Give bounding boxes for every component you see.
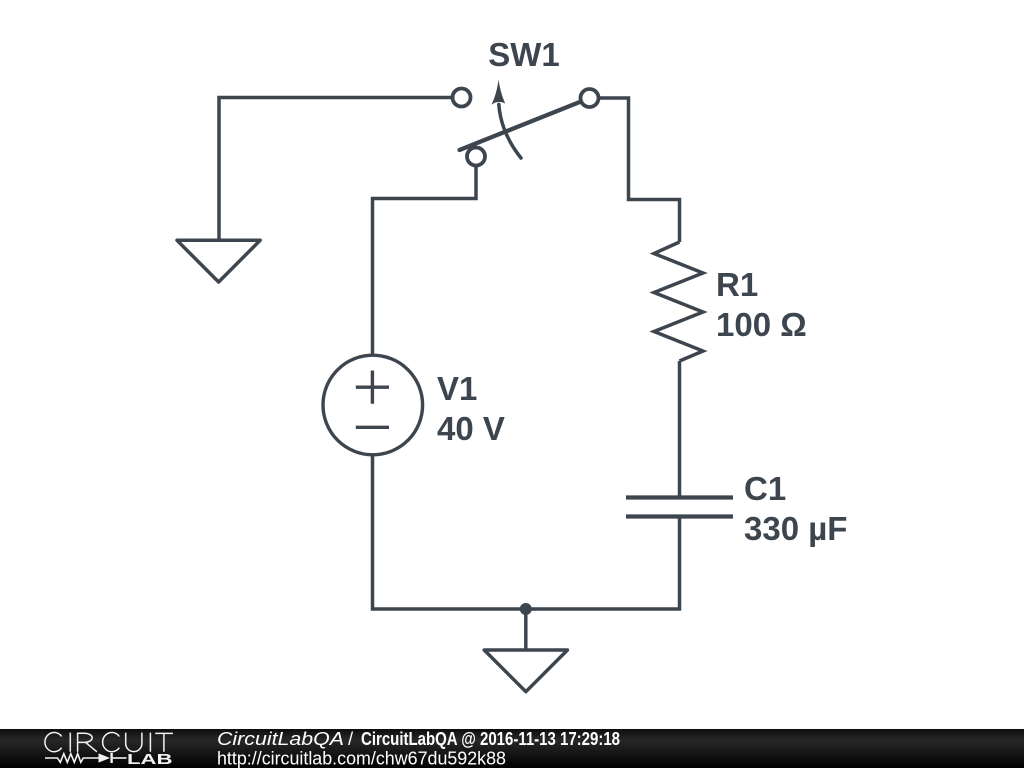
svg-text:C1: C1 xyxy=(744,470,786,507)
capacitor C1 bottom plate xyxy=(626,514,733,518)
logo letter T xyxy=(155,733,173,751)
svg-text:V1: V1 xyxy=(437,370,477,407)
node junction dot xyxy=(520,603,532,615)
wire C1 bottom to bottom rail xyxy=(526,518,680,609)
wire R1 to C1 xyxy=(678,361,682,496)
ground GND left xyxy=(177,240,260,282)
svg-text:CircuitLabQA @ 2016-11-13 17:2: CircuitLabQA @ 2016-11-13 17:29:18 xyxy=(361,728,620,749)
svg-text:SW1: SW1 xyxy=(488,36,560,73)
CircuitLab logo wordmark CIRCUIT (drawn letters) xyxy=(45,733,173,752)
voltage source V1 circle xyxy=(323,355,423,455)
logo letter I xyxy=(69,733,71,752)
svg-text:330 µF: 330 µF xyxy=(744,510,847,547)
logo letter R xyxy=(78,733,97,752)
logo letter I xyxy=(149,733,151,752)
logo letter U xyxy=(126,733,142,752)
switch SW1 left terminal xyxy=(453,89,471,107)
ground GND bottom xyxy=(484,650,567,692)
svg-text:CircuitLabQA: CircuitLabQA xyxy=(217,728,344,749)
resistor R1 zigzag xyxy=(654,242,703,361)
wire from switch pole down to V1 xyxy=(373,165,477,355)
V1 minus sign xyxy=(356,426,389,429)
logo letter C xyxy=(103,733,120,752)
svg-text:100 Ω: 100 Ω xyxy=(716,306,807,343)
svg-text:http://circuitlab.com/chw67du5: http://circuitlab.com/chw67du592k88 xyxy=(217,748,506,768)
svg-text:LAB: LAB xyxy=(127,752,173,768)
capacitor C1 top plate xyxy=(626,495,733,499)
CircuitLab logo resistor-diode squiggle xyxy=(45,753,127,763)
footer bar xyxy=(0,729,1024,768)
wire V1 bottom to bottom rail xyxy=(373,456,526,609)
switch SW1 pole terminal xyxy=(467,148,485,166)
V1 plus sign xyxy=(356,371,389,404)
switch SW1 right terminal xyxy=(581,89,599,107)
wire from switch left terminal to left ground xyxy=(219,98,452,241)
svg-text:/: / xyxy=(348,728,354,749)
svg-text:40 V: 40 V xyxy=(437,410,505,447)
switch SW1 actuation arrow xyxy=(499,105,521,159)
wire from switch right terminal to R1 xyxy=(598,98,680,242)
logo letter C xyxy=(45,733,62,752)
switch SW1 blade xyxy=(460,102,582,151)
wire junction to bottom ground xyxy=(524,609,528,650)
svg-text:R1: R1 xyxy=(716,266,758,303)
